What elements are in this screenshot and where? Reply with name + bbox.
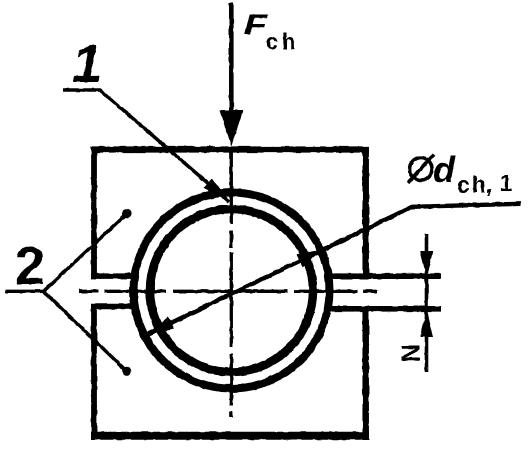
svg-text:N: N (396, 344, 426, 363)
svg-text:1: 1 (500, 170, 513, 196)
svg-text:ch: ch (266, 29, 300, 55)
svg-text:,: , (486, 172, 492, 198)
svg-text:2: 2 (15, 236, 45, 296)
svg-text:d: d (433, 149, 456, 190)
svg-text:ch: ch (457, 172, 488, 198)
svg-text:1: 1 (72, 34, 102, 94)
